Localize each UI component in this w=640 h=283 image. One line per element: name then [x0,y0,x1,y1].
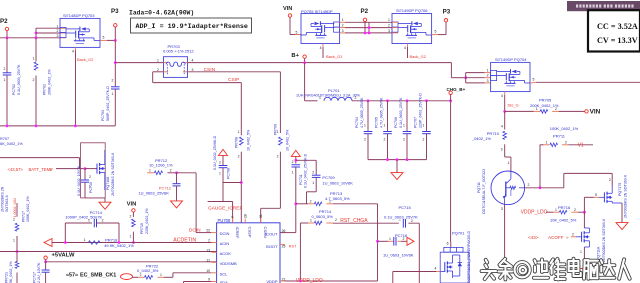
svg-text:CC = 3.52A -: CC = 3.52A - [597,22,640,31]
svg-text:2: 2 [384,138,386,142]
svg-text:220P_0402_25V7K-D: 220P_0402_25V7K-D [419,93,423,128]
svg-text:Si7148DP PQ703: Si7148DP PQ703 [63,13,95,18]
svg-text:1: 1 [310,219,312,223]
svg-text:PR716: PR716 [558,205,571,210]
svg-text:GAUGE_ICREF: GAUGE_ICREF [208,205,242,211]
svg-text:100K_0402_1%: 100K_0402_1% [26,196,30,222]
svg-text:1: 1 [57,24,59,28]
svg-text:2: 2 [219,160,221,164]
svg-text:DCIN: DCIN [220,231,230,236]
svg-text:1: 1 [389,237,391,241]
svg-text:CSIN: CSIN [204,67,216,73]
svg-text:2: 2 [555,107,557,111]
svg-text:P3: P3 [111,8,119,15]
svg-text:<43,57>: <43,57> [8,167,24,172]
svg-text:PC709: PC709 [322,175,335,180]
svg-text:Iada=0-4.62A(90W): Iada=0-4.62A(90W) [129,10,194,17]
svg-text:1: 1 [129,234,131,238]
svg-text:PR702: PR702 [43,84,47,95]
svg-text:PR721: PR721 [4,272,8,283]
svg-text:1: 1 [33,57,35,61]
svg-text:VIN: VIN [283,6,292,12]
svg-text:1U_0603_10V6K: 1U_0603_10V6K [383,252,414,257]
svg-text:1U_0603_10V6K: 1U_0603_10V6K [322,181,353,186]
svg-text:1: 1 [160,273,162,277]
svg-text:4: 4 [192,59,194,63]
svg-text:4.7U_0805_25V5K: 4.7U_0805_25V5K [360,97,364,128]
svg-text:1: 1 [157,59,159,63]
svg-text:13: 13 [206,248,210,252]
svg-text:2: 2 [208,239,210,243]
svg-text:2: 2 [111,79,113,83]
svg-text:3: 3 [57,34,59,38]
svg-text:2: 2 [388,24,390,28]
svg-text:0.1U_0402_25V6K-D: 0.1U_0402_25V6K-D [304,153,308,188]
svg-text:2: 2 [312,170,314,174]
svg-text:1: 1 [238,130,240,134]
svg-text:PC706: PC706 [394,117,398,128]
svg-text:2N7002BKS 2N SOT363-6: 2N7002BKS 2N SOT363-6 [111,153,115,196]
svg-text:PR715: PR715 [140,223,144,234]
svg-text:2: 2 [403,138,405,142]
svg-text:22: 22 [206,229,210,233]
svg-text:ICREF: ICREF [235,227,240,240]
svg-text:ADP_I = 19.9*Iadapter*Rsense: ADP_I = 19.9*Iadapter*Rsense [136,23,248,31]
svg-text:1: 1 [88,219,90,223]
svg-text:CSSN: CSSN [263,227,268,238]
svg-text:2: 2 [335,218,337,222]
svg-text:100K_0402_1%: 100K_0402_1% [550,126,579,131]
svg-text:Back_G2: Back_G2 [77,57,94,62]
svg-text:25: 25 [282,244,286,248]
svg-text:4.7U_0805_25V5K: 4.7U_0805_25V5K [380,97,384,128]
svg-text:PR708: PR708 [234,137,238,148]
svg-text:PC708: PC708 [227,168,231,179]
svg-text:Dis_G: Dis_G [508,102,519,107]
svg-text:»: » [566,235,569,240]
svg-text:2.2U_10V7K: 2.2U_10V7K [37,262,41,283]
svg-text:P2: P2 [0,18,8,25]
svg-text:VDDP_LDO: VDDP_LDO [521,209,548,215]
svg-text:5: 5 [296,30,298,34]
svg-text:2: 2 [411,219,413,223]
svg-text:1: 1 [4,78,6,82]
svg-text:P2: P2 [361,8,369,15]
svg-text:1: 1 [292,170,294,174]
svg-text:SOT363-6: SOT363-6 [5,195,9,212]
svg-text:10K_0402_5%: 10K_0402_5% [550,217,577,222]
svg-text:1: 1 [423,123,425,127]
svg-text:215K_0402_1%: 215K_0402_1% [145,208,149,234]
svg-text:1: 1 [403,123,405,127]
svg-text:1000P_0402_50V7K: 1000P_0402_50V7K [65,214,102,219]
svg-text:1: 1 [312,181,314,185]
svg-text:2: 2 [364,138,366,142]
svg-text:2: 2 [527,183,529,187]
svg-text:1U_0603_25V6K: 1U_0603_25V6K [138,190,169,195]
svg-text:0.1U_0603_25V7K: 0.1U_0603_25V7K [17,64,21,95]
svg-text:DCIN: DCIN [189,228,201,234]
svg-text:CSSP: CSSP [248,227,253,238]
svg-text:4: 4 [501,125,503,129]
svg-text:1: 1 [364,123,366,127]
svg-text:PQ701: PQ701 [452,230,465,235]
svg-text:VIN: VIN [127,201,137,207]
svg-text:3: 3 [501,148,503,152]
svg-text:2: 2 [89,175,91,179]
svg-text:0_0402_5%: 0_0402_5% [137,268,159,273]
svg-text:4: 4 [404,46,406,50]
svg-text:2: 2 [423,138,425,142]
svg-text:10_0402_5%: 10_0402_5% [286,129,290,151]
svg-text:10_0402_5%: 10_0402_5% [246,129,250,151]
svg-text:2: 2 [342,24,344,28]
svg-text:4: 4 [320,46,322,50]
svg-text:PC702: PC702 [12,84,16,95]
svg-text:10_1206_1%: 10_1206_1% [149,163,173,168]
svg-text:21: 21 [282,278,286,282]
svg-text:RST: RST [289,245,297,249]
svg-text:31: 31 [259,214,263,218]
svg-text:VDDP_LDO: VDDP_LDO [296,278,323,283]
svg-text:2: 2 [57,29,59,33]
svg-text:2: 2 [402,237,404,241]
svg-text:1: 1 [580,250,582,254]
svg-text:1: 1 [89,185,91,189]
svg-text:0.1U_0402_10V7K: 0.1U_0402_10V7K [77,165,81,196]
svg-text:ACDETIN: ACDETIN [173,238,196,244]
svg-text:SCL: SCL [220,271,229,276]
svg-text:PC707: PC707 [414,117,418,128]
svg-text:Back_G1: Back_G1 [326,54,343,59]
svg-text:0.005 +-1% 2512: 0.005 +-1% 2512 [163,49,194,54]
svg-text:Si7149DP PQ706: Si7149DP PQ706 [396,8,428,13]
svg-text:11: 11 [206,258,210,262]
svg-text:ACOFF: ACOFF [548,235,564,240]
svg-text:2: 2 [292,160,294,164]
svg-text:PR711: PR711 [553,134,566,139]
svg-text:560P_0402_25V7K-D: 560P_0402_25V7K-D [106,86,110,121]
svg-text:2: 2 [129,215,131,219]
svg-text:5: 5 [595,193,597,197]
svg-text:3: 3 [487,79,489,83]
svg-text:49.9K_0402_1%: 49.9K_0402_1% [104,243,134,248]
svg-text:2: 2 [574,208,576,212]
svg-text:PR709: PR709 [274,124,278,135]
svg-text:R707: R707 [0,137,9,141]
svg-text:VIN: VIN [590,109,601,116]
svg-text:1: 1 [149,168,151,172]
svg-text:1: 1 [388,18,390,22]
svg-text:6K_0402_1%: 6K_0402_1% [0,142,23,146]
svg-text:1: 1 [219,172,221,176]
svg-text:1: 1 [546,140,548,144]
svg-text:PC703: PC703 [101,110,105,121]
svg-text:9: 9 [208,278,210,282]
svg-text:Si7149DP PQ704: Si7149DP PQ704 [495,57,527,62]
svg-text:2: 2 [170,168,172,172]
svg-text:200K_0402_1%: 200K_0402_1% [48,69,52,95]
svg-text:1: 1 [555,208,557,212]
svg-text:PR705: PR705 [539,98,552,103]
svg-text:0_0603_5%: 0_0603_5% [312,214,334,219]
svg-text:CSIP: CSIP [228,77,239,83]
svg-text:PC705: PC705 [375,117,379,128]
svg-text:PC715: PC715 [399,205,412,210]
svg-text:PQ711A: PQ711A [596,246,600,260]
svg-text:ACIN: ACIN [220,241,230,246]
svg-text:5K_0402_1%: 5K_0402_1% [9,261,13,283]
svg-text:2: 2 [310,199,312,203]
svg-text:VDDSMB: VDDSMB [220,261,237,266]
svg-text:28: 28 [243,214,247,218]
svg-text:ACOK: ACOK [220,251,232,256]
svg-text:4: 4 [72,50,74,54]
svg-text:0.1U_0603_25V7K: 0.1U_0603_25V7K [399,97,403,128]
svg-text:2N7002BKS 2N SOT363-6: 2N7002BKS 2N SOT363-6 [624,175,628,218]
svg-text:2: 2 [355,96,357,100]
svg-text:CV = 13.3V: CV = 13.3V [597,36,638,45]
svg-text:2: 2 [33,78,35,82]
svg-text:<43>: <43> [528,235,539,240]
svg-text:PU708: PU708 [218,218,231,223]
svg-text:»: » [50,169,53,174]
svg-text:+5VALW: +5VALW [52,252,75,258]
svg-text:2N7002BKS 2N SOT363-6: 2N7002BKS 2N SOT363-6 [602,219,606,262]
svg-text:2: 2 [140,273,142,277]
svg-text:Back_G2: Back_G2 [410,54,427,59]
svg-text:1: 1 [507,161,509,165]
svg-text:PQ7168: PQ7168 [106,177,110,190]
svg-text:5: 5 [102,35,104,39]
svg-text:PC704: PC704 [355,117,359,128]
svg-text:PR717: PR717 [21,211,25,222]
svg-text:EC_SMB_CK1: EC_SMB_CK1 [80,273,116,279]
svg-text:VDDP: VDDP [266,279,277,283]
svg-text:3: 3 [342,29,344,33]
svg-text:1: 1 [84,238,86,242]
svg-text:P3: P3 [443,8,451,15]
svg-text:_0402_1%: _0402_1% [471,136,492,141]
svg-text:3: 3 [388,29,390,33]
svg-text:1: 1 [487,69,489,73]
svg-text:6: 6 [447,241,449,245]
svg-text:PR718: PR718 [105,237,118,242]
svg-text:2N7002BKS 2N: 2N7002BKS 2N [0,186,4,212]
svg-text:2: 2 [609,178,611,182]
svg-text:0.1U_0603_25V7K: 0.1U_0603_25V7K [384,214,418,219]
svg-text:4: 4 [501,94,503,98]
svg-text:5: 5 [435,30,437,34]
svg-text:PQ7175: PQ7175 [618,183,622,196]
svg-text:PQ711: PQ711 [477,182,481,193]
svg-text:V1: V1 [578,142,584,148]
svg-text:PC711: PC711 [299,174,303,185]
svg-text:1: 1 [384,123,386,127]
svg-text:5: 5 [532,78,534,82]
svg-text:4: 4 [435,267,437,271]
svg-text:1: 1 [536,107,538,111]
svg-text:1: 1 [342,18,344,22]
svg-text:1: 1 [329,199,331,203]
svg-text:BOOT: BOOT [266,244,278,249]
svg-text:0.1U_0402_25V6K-D: 0.1U_0402_25V6K-D [213,135,217,170]
svg-text:2: 2 [102,219,104,223]
svg-text:3: 3 [501,207,503,211]
svg-text:2: 2 [13,218,15,222]
svg-text:7: 7 [231,216,235,218]
svg-text:10: 10 [206,269,210,273]
svg-text:2: 2 [572,232,574,236]
svg-text:2: 2 [277,155,279,159]
svg-text:«57»: «57» [66,273,78,279]
svg-text:PC717: PC717 [32,272,36,283]
svg-text:2: 2 [487,74,489,78]
svg-text:1: 1 [111,92,113,96]
svg-text:1: 1 [13,238,15,242]
svg-text:2: 2 [565,140,567,144]
svg-text:PL701: PL701 [328,88,340,93]
svg-text:2: 2 [238,155,240,159]
svg-text:RST_CHGA: RST_CHGA [340,218,368,224]
svg-text:SGEPT1GB3_POWERPAK8S-D: SGEPT1GB3_POWERPAK8S-D [467,231,471,283]
svg-text:1.0002_U02: 1.0002_U02 [13,198,17,218]
svg-text:DDTC115EUA-7-F_SOT323: DDTC115EUA-7-F_SOT323 [482,169,486,214]
svg-text:2: 2 [4,67,6,71]
svg-text:B+: B+ [291,53,299,59]
